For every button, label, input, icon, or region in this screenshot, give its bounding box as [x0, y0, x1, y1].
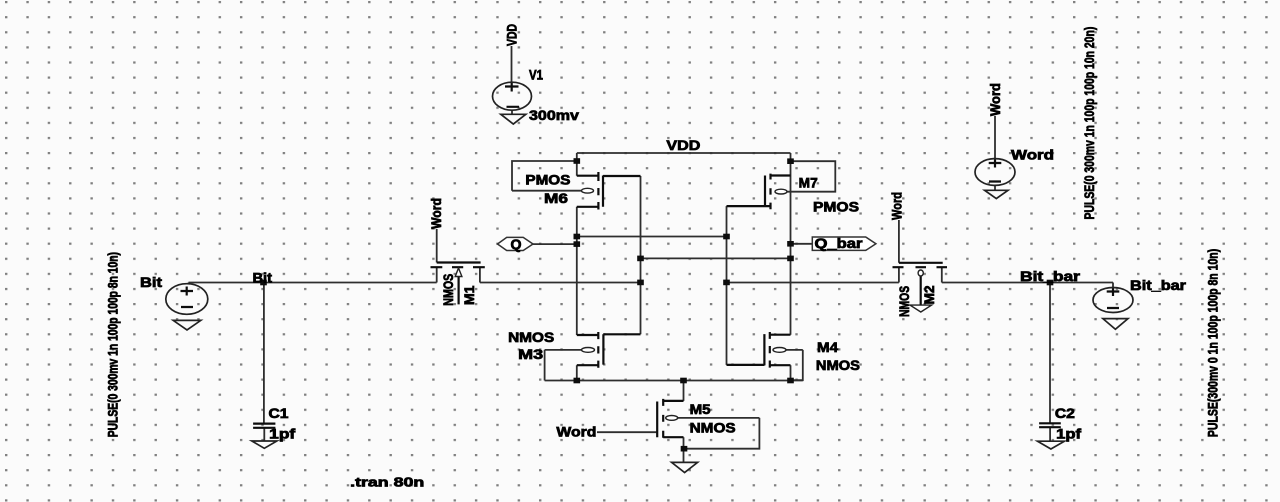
- svg-text:NMOS: NMOS: [816, 358, 860, 373]
- svg-text:Bit_bar: Bit_bar: [1130, 278, 1187, 293]
- svg-text:Word: Word: [890, 192, 905, 220]
- svg-text:NMOS: NMOS: [441, 274, 456, 306]
- svg-text:PULSE(0 300mv 1n 100p 100p 10n: PULSE(0 300mv 1n 100p 100p 10n 20n): [1082, 27, 1097, 220]
- svg-text:M7: M7: [799, 176, 818, 191]
- svg-text:1pf: 1pf: [269, 427, 296, 442]
- svg-text:Q: Q: [511, 237, 522, 252]
- svg-text:M4: M4: [817, 340, 839, 355]
- svg-text:M3: M3: [518, 347, 544, 362]
- svg-text:NMOS: NMOS: [508, 330, 554, 345]
- svg-text:Q_bar: Q_bar: [815, 236, 864, 251]
- svg-text:.tran 80n: .tran 80n: [350, 475, 424, 489]
- svg-text:PULSE(300mv 0 1n 100p 100p 8n: PULSE(300mv 0 1n 100p 100p 8n 10n): [1206, 249, 1221, 437]
- svg-text:PMOS: PMOS: [813, 200, 859, 215]
- svg-text:C2: C2: [1055, 406, 1075, 421]
- svg-text:VDD: VDD: [666, 138, 700, 153]
- svg-text:1pf: 1pf: [1056, 427, 1082, 442]
- svg-text:PMOS: PMOS: [525, 173, 570, 188]
- svg-text:V1: V1: [529, 68, 543, 83]
- svg-text:VDD: VDD: [505, 24, 520, 46]
- svg-text:Bit: Bit: [253, 271, 273, 286]
- svg-text:M2: M2: [922, 285, 937, 304]
- svg-text:Bit: Bit: [140, 275, 163, 290]
- svg-text:M6: M6: [544, 191, 569, 206]
- svg-text:Word: Word: [429, 198, 444, 229]
- svg-text:PULSE(0 300mv 1n 100p 100p 8n: PULSE(0 300mv 1n 100p 100p 8n 10n): [106, 252, 121, 437]
- svg-text:Word: Word: [1011, 147, 1054, 162]
- svg-text:NMOS: NMOS: [690, 421, 736, 436]
- svg-text:Word: Word: [988, 83, 1003, 116]
- svg-text:Bit_bar: Bit_bar: [1020, 269, 1081, 284]
- svg-text:NMOS: NMOS: [897, 286, 912, 317]
- svg-text:C1: C1: [269, 406, 290, 421]
- svg-text:M1: M1: [462, 285, 477, 305]
- svg-text:M5: M5: [690, 402, 712, 417]
- svg-text:Word: Word: [556, 425, 596, 440]
- svg-text:300mv: 300mv: [529, 108, 580, 123]
